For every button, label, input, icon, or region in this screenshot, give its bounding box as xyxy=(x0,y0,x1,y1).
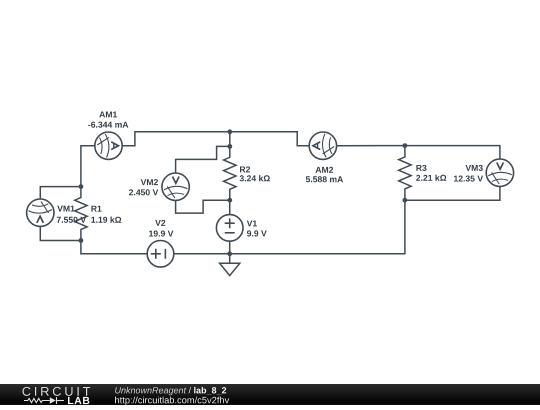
ammeter AM2 xyxy=(309,132,336,159)
wire AM1 left lead to R1 top xyxy=(81,146,95,187)
wire R3 top node to VM3 top xyxy=(405,146,500,160)
node ground junction xyxy=(227,251,232,256)
label AM1 value xyxy=(88,122,128,128)
node top rail / R2 tap xyxy=(227,129,232,134)
node R2 bottom / V1 / VM2 xyxy=(227,198,232,203)
node R3 bottom xyxy=(403,198,408,203)
wire VM2 bottom to R2 bottom node xyxy=(176,200,230,213)
label R1 name xyxy=(91,206,101,212)
resistor R1 xyxy=(75,187,87,241)
resistor R2 xyxy=(224,146,236,200)
footer title line xyxy=(115,387,186,395)
node R2 top / VM2 tap xyxy=(227,144,232,149)
label R2 value xyxy=(240,175,270,181)
CircuitLab logo wordmark LAB xyxy=(68,397,89,404)
wire bottom rail ground node to R3 bottom xyxy=(230,200,405,254)
wire R2 bottom node to V1 top xyxy=(229,200,231,215)
wire top rail node to R2 top node xyxy=(229,132,231,147)
label V2 value xyxy=(149,231,173,237)
resistor R3 xyxy=(399,146,411,201)
label VM2 name xyxy=(141,179,158,185)
ground xyxy=(220,254,240,276)
wire R1 top node to VM1 top xyxy=(40,187,81,200)
label VM3 value xyxy=(454,176,483,182)
label R2 name xyxy=(240,166,250,172)
wire R1 bottom node to V2 left xyxy=(81,241,147,254)
label AM2 name xyxy=(316,167,334,173)
label VM1 value xyxy=(57,217,86,223)
node R3 top xyxy=(403,143,408,148)
footer url line xyxy=(115,397,229,406)
label V2 name xyxy=(155,220,165,226)
node R1 bottom / VM1 xyxy=(79,238,84,243)
label VM2 value xyxy=(129,189,158,195)
CircuitLab logo wordmark CIRCUIT xyxy=(22,387,90,396)
label VM3 name xyxy=(466,165,483,171)
voltage source V2 xyxy=(147,241,174,268)
wire VM3 bottom to R3 bottom node xyxy=(405,186,500,200)
wire AM1 right to top rail node xyxy=(122,132,230,146)
CircuitLab logo resistor-diode glyph xyxy=(24,397,64,404)
wire R2 top node to VM2 top xyxy=(176,146,230,173)
wire V1 bottom to ground node xyxy=(229,241,231,254)
wire V2 right to ground node xyxy=(173,253,229,255)
voltmeter VM3 xyxy=(486,159,513,186)
label R1 value xyxy=(91,217,121,223)
wire AM2 right to R3 top node xyxy=(337,145,405,147)
label R3 value xyxy=(416,175,446,181)
wire top rail node to AM2 left xyxy=(230,132,309,146)
label V1 name xyxy=(247,221,257,227)
wire VM1 bottom to R1 bottom node xyxy=(40,226,81,240)
label R3 name xyxy=(416,165,426,171)
label AM2 value xyxy=(306,176,343,182)
voltage source V1 xyxy=(216,215,243,242)
label AM1 name xyxy=(99,112,117,118)
voltmeter VM1 xyxy=(27,199,54,226)
ammeter AM1 xyxy=(95,132,122,159)
voltmeter VM2 xyxy=(162,173,189,200)
label V1 value xyxy=(247,230,267,236)
label VM1 name xyxy=(57,206,74,212)
node R1 top / VM1 xyxy=(79,184,84,189)
